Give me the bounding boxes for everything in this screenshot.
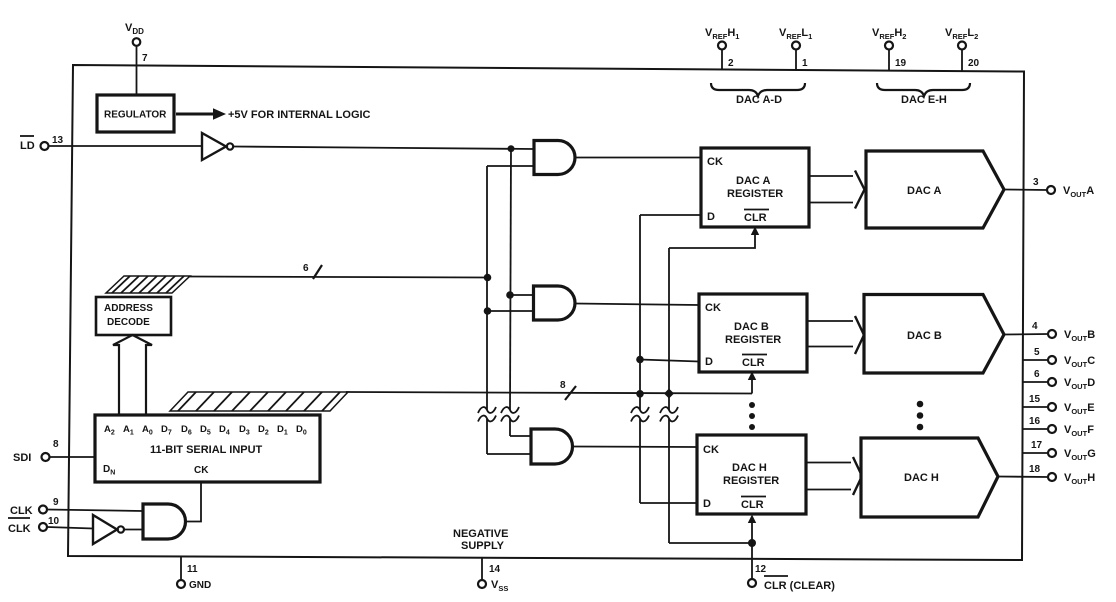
- svg-text:6: 6: [303, 263, 309, 274]
- svg-text:DAC B: DAC B: [907, 330, 942, 342]
- svg-text:CK: CK: [707, 156, 723, 168]
- wire VDD to regulator: [136, 46, 138, 95]
- svg-text:14: 14: [489, 564, 501, 575]
- svg-text:11: 11: [187, 564, 198, 575]
- svg-text:1: 1: [802, 58, 808, 69]
- svg-text:DAC B: DAC B: [734, 321, 769, 333]
- bus width slash 6: [303, 263, 322, 279]
- wire D net to DAC A register: [640, 214, 701, 216]
- node D net to DAC B register: [636, 356, 699, 364]
- svg-text:CLR: CLR: [744, 212, 767, 224]
- wire CLR to DAC A register: [669, 227, 759, 249]
- pin VREFL1: [779, 27, 812, 70]
- bus hatch (serial data out): [170, 392, 348, 411]
- pin VOUTF: [1023, 416, 1094, 438]
- svg-text:DAC A-D: DAC A-D: [736, 94, 782, 106]
- regulator U1 box: [97, 95, 174, 132]
- svg-text:DAC A: DAC A: [736, 175, 770, 187]
- pin CLK: [10, 497, 143, 517]
- svg-text:12: 12: [755, 564, 767, 575]
- wire AND B to DAC B register CK: [575, 304, 699, 306]
- svg-text:CLR: CLR: [741, 499, 764, 511]
- pin VDD circle: [133, 38, 141, 46]
- wire CLR to DAC H register: [748, 515, 756, 544]
- pin CLR (CLEAR): [748, 543, 835, 592]
- label negative supply: [453, 528, 508, 552]
- node CLR junction: [748, 539, 756, 547]
- AND gate H: [531, 429, 573, 464]
- break marks column 4: [660, 407, 678, 422]
- address decode box: [96, 297, 171, 335]
- svg-text:10: 10: [48, 516, 60, 527]
- svg-text:REGULATOR: REGULATOR: [104, 110, 167, 121]
- pin VOUTH: [998, 464, 1095, 486]
- svg-text:DAC H: DAC H: [904, 472, 939, 484]
- wire data D net vertical: [639, 215, 641, 503]
- pin SDI: [13, 439, 95, 464]
- pin VOUTA: [1004, 177, 1094, 199]
- DAC A register box: [701, 148, 809, 227]
- pin VDD label: [125, 22, 144, 36]
- pin VOUTE: [1023, 394, 1095, 416]
- wire D net to DAC H register: [640, 502, 697, 504]
- svg-text:CK: CK: [194, 465, 209, 476]
- svg-text:9: 9: [53, 497, 59, 508]
- svg-text:CLK: CLK: [8, 523, 31, 535]
- brace DAC A-D: [711, 83, 805, 106]
- node address net to AND B: [484, 307, 534, 315]
- pin VSS: [478, 558, 508, 593]
- pin VREFH2: [872, 27, 907, 71]
- node LD net to AND B: [506, 291, 533, 299]
- svg-text:+5V FOR INTERNAL LOGIC: +5V FOR INTERNAL LOGIC: [228, 109, 371, 121]
- bus width slash 8: [560, 380, 576, 400]
- DAC A block: [866, 151, 1004, 228]
- pin CLKbar: [8, 516, 93, 535]
- node CLR net diamond junction: [664, 389, 674, 399]
- svg-text:DAC A: DAC A: [907, 185, 941, 197]
- node LD/AND-A junction: [508, 145, 515, 152]
- svg-text:8: 8: [560, 380, 566, 391]
- wire address net vertical: [486, 166, 488, 454]
- svg-text:CLR (CLEAR): CLR (CLEAR): [764, 580, 835, 592]
- svg-text:3: 3: [1033, 177, 1039, 188]
- bus arrow register B to DAC B: [807, 316, 864, 354]
- bit labels A2 A1 A0 D7..D0: [104, 424, 307, 437]
- svg-text:11-BIT SERIAL INPUT: 11-BIT SERIAL INPUT: [150, 444, 263, 456]
- svg-text:SUPPLY: SUPPLY: [461, 540, 505, 552]
- pin LD: [20, 135, 64, 152]
- wire AND H to DAC H register CK: [573, 446, 698, 449]
- svg-text:LD: LD: [20, 140, 35, 152]
- wire clock AND to CK: [186, 482, 202, 522]
- bus hatch (address decode): [106, 276, 190, 293]
- DAC B block: [864, 295, 1004, 374]
- svg-text:SDI: SDI: [13, 452, 31, 464]
- wire LD vertical net: [510, 149, 511, 436]
- svg-text:6: 6: [1034, 369, 1040, 380]
- svg-text:GND: GND: [189, 580, 211, 591]
- inverter U2 (LD): [202, 133, 233, 160]
- wire AND A to DAC A register CK: [576, 157, 702, 159]
- svg-text:REGISTER: REGISTER: [727, 188, 783, 200]
- pin VOUTC: [1023, 347, 1095, 369]
- ellipsis DAC C-G: [917, 401, 924, 431]
- wire LD net to AND H: [510, 435, 531, 437]
- svg-text:17: 17: [1031, 440, 1043, 451]
- AND gate A: [534, 141, 575, 175]
- svg-text:DAC H: DAC H: [732, 462, 767, 474]
- pin VREFL2: [945, 27, 980, 71]
- pin VOUTB: [1004, 321, 1095, 343]
- svg-text:19: 19: [895, 58, 907, 69]
- svg-text:18: 18: [1029, 464, 1041, 475]
- svg-text:CK: CK: [705, 302, 721, 314]
- break marks column 2: [501, 407, 519, 422]
- svg-text:4: 4: [1032, 321, 1038, 332]
- ellipsis registers C-G: [749, 402, 755, 430]
- svg-text:D: D: [703, 498, 711, 510]
- wire address net to AND A: [487, 165, 534, 167]
- svg-text:REGISTER: REGISTER: [723, 475, 779, 487]
- arrow +5V: [176, 108, 226, 120]
- svg-text:D: D: [707, 211, 715, 223]
- pin 7 number: [142, 53, 148, 64]
- 11-bit serial input register box: [95, 415, 320, 482]
- wire LD to inverter: [49, 145, 202, 147]
- svg-text:ADDRESS: ADDRESS: [104, 303, 153, 314]
- pin VREFH1: [705, 27, 739, 70]
- svg-text:D: D: [705, 356, 713, 368]
- svg-text:16: 16: [1029, 416, 1041, 427]
- pin GND: [177, 556, 211, 591]
- svg-text:20: 20: [968, 58, 980, 69]
- wire address net to AND H: [487, 453, 531, 455]
- wire CLR to DAC B register: [748, 372, 756, 394]
- label +5V FOR INTERNAL LOGIC: [228, 109, 371, 121]
- brace DAC E-H: [877, 83, 970, 106]
- svg-text:2: 2: [728, 58, 734, 69]
- wire CLR bottom run: [669, 542, 752, 544]
- break marks column 1: [478, 407, 496, 422]
- block arrow serial input to address decode: [113, 335, 152, 415]
- break marks column 3: [631, 407, 649, 422]
- svg-text:NEGATIVE: NEGATIVE: [453, 528, 508, 540]
- svg-text:CLK: CLK: [10, 505, 33, 517]
- svg-text:5: 5: [1034, 347, 1040, 358]
- pin VOUTG: [1023, 440, 1096, 462]
- svg-text:CK: CK: [703, 444, 719, 456]
- DAC H block: [861, 438, 998, 517]
- svg-text:CLR: CLR: [742, 357, 765, 369]
- wire CLR net vertical: [668, 248, 670, 543]
- svg-text:7: 7: [142, 53, 148, 64]
- inverter U3 (CLKbar): [93, 515, 143, 544]
- AND gate U4 (clock): [143, 504, 186, 539]
- svg-text:15: 15: [1029, 394, 1041, 405]
- svg-text:13: 13: [52, 135, 64, 146]
- AND gate B: [534, 286, 576, 320]
- bus arrow register A to DAC A: [809, 171, 865, 209]
- wire inverter to AND gates column: [233, 147, 534, 150]
- node address bus junction: [484, 274, 492, 282]
- node D net on data bus: [636, 390, 644, 398]
- svg-text:8: 8: [53, 439, 59, 450]
- svg-text:REGISTER: REGISTER: [725, 334, 781, 346]
- bus arrow register H to DAC H: [806, 457, 862, 495]
- svg-text:DAC E-H: DAC E-H: [901, 94, 947, 106]
- wire address bus 6: [189, 277, 487, 278]
- svg-text:DECODE: DECODE: [107, 317, 150, 328]
- DAC H register box: [697, 435, 806, 514]
- pin VOUTD: [1023, 369, 1095, 391]
- chip outer border: [68, 65, 1024, 560]
- wire data bus 8: [346, 392, 752, 394]
- DAC B register box: [699, 294, 807, 372]
